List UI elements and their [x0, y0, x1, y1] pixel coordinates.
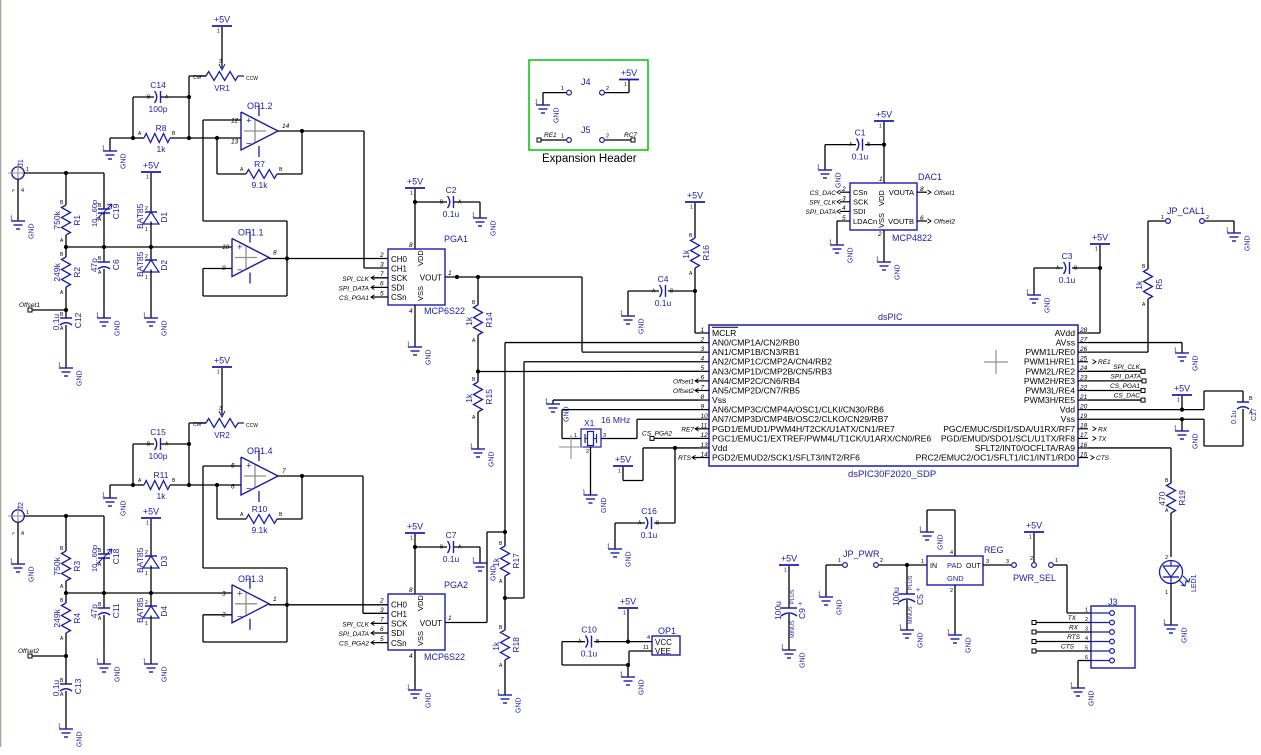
wire RA9 to R19 [1088, 448, 1171, 480]
svg-text:2: 2 [379, 252, 384, 259]
svg-text:GND: GND [489, 451, 496, 467]
wire OP1 VEE to ground [629, 651, 652, 665]
resistor R17 1k [491, 532, 521, 598]
svg-text:25: 25 [1079, 356, 1088, 363]
svg-text:GND: GND [947, 574, 964, 583]
svg-text:1: 1 [829, 240, 832, 246]
connector J3 [1085, 597, 1135, 668]
wire net row ch2 [66, 592, 232, 594]
svg-text:23: 23 [1079, 375, 1088, 382]
svg-text:VCC: VCC [655, 638, 672, 647]
net flag CS_PGA2 to PGA2 [339, 640, 388, 647]
svg-text:R10: R10 [252, 504, 268, 514]
svg-text:PWR_SEL: PWR_SEL [1013, 573, 1056, 583]
potentiometer VR1 [193, 59, 258, 93]
svg-text:3: 3 [986, 559, 989, 565]
capacitor C1 0.1u [825, 128, 884, 170]
svg-text:7: 7 [282, 468, 286, 475]
svg-text:DAC1: DAC1 [918, 172, 942, 182]
svg-text:100u: 100u [891, 587, 901, 606]
ground at R15 [470, 444, 496, 468]
wire JP_PWR-1 to ground [826, 565, 842, 597]
svg-text:1: 1 [407, 342, 410, 348]
svg-text:VSS: VSS [416, 286, 425, 301]
svg-text:X1: X1 [584, 418, 595, 428]
svg-text:CSn: CSn [391, 293, 407, 302]
junction Offset1 [64, 308, 68, 312]
ground at C16 [607, 544, 633, 568]
wire OP1.2 +in [203, 120, 241, 221]
wire REG pin4 to ground [927, 510, 955, 556]
svg-text:100p: 100p [149, 451, 168, 461]
svg-text:1: 1 [1165, 590, 1168, 596]
svg-text:PGA2: PGA2 [444, 580, 468, 590]
wire net row ch1 [66, 246, 232, 248]
svg-text:1k: 1k [157, 144, 167, 154]
svg-text:1: 1 [921, 559, 924, 565]
svg-text:AN7/CMP3D/CMP4B/OSC2/CLKO/CN29: AN7/CMP3D/CMP4B/OSC2/CLKO/CN29/RB7 [712, 414, 888, 424]
svg-text:1: 1 [1163, 620, 1166, 626]
svg-text:1: 1 [1085, 608, 1088, 614]
svg-text:−: − [246, 139, 252, 150]
svg-text:BAT85: BAT85 [135, 203, 145, 229]
svg-text:RE7: RE7 [681, 426, 694, 433]
svg-text:10: 10 [222, 244, 230, 251]
svg-text:1: 1 [1029, 535, 1032, 541]
wire +5V to PGA1 VDD [414, 189, 416, 249]
+5V at D1 [141, 161, 161, 181]
junction row2 b [102, 591, 106, 595]
svg-text:16: 16 [1080, 442, 1088, 449]
svg-text:14: 14 [282, 123, 290, 130]
svg-text:SPI_DATA: SPI_DATA [1111, 373, 1141, 380]
svg-text:1: 1 [102, 493, 105, 499]
wire OP1.2 output [278, 131, 364, 268]
junction R1 top [64, 171, 68, 175]
capacitor C3 0.1u [1034, 251, 1100, 295]
op-amp power OP1 [643, 626, 680, 656]
wire AN3 from ch1 divider [478, 370, 699, 372]
svg-text:1: 1 [497, 690, 500, 696]
svg-text:PRC2/EMUC2/OC1/SFLT1/IC1/INT1/: PRC2/EMUC2/OC1/SFLT1/IC1/INT1/RD0 [916, 453, 1076, 463]
ground at Vss pin8 [545, 399, 571, 423]
svg-text:1: 1 [583, 490, 586, 496]
svg-text:R18: R18 [511, 637, 521, 653]
svg-text:1: 1 [143, 659, 146, 665]
svg-text:1: 1 [273, 596, 277, 603]
svg-text:15: 15 [1080, 451, 1088, 458]
svg-text:Offset1: Offset1 [673, 378, 694, 385]
PGA1 CH1 pin wire [364, 267, 388, 269]
junction Vss pin19 [1180, 417, 1184, 421]
svg-text:5: 5 [380, 636, 384, 643]
svg-text:C19: C19 [111, 203, 121, 219]
svg-text:OUT: OUT [966, 563, 982, 570]
svg-text:VOUTB: VOUTB [888, 217, 914, 226]
svg-text:470: 470 [1157, 491, 1167, 505]
ground at J1 [10, 216, 36, 240]
svg-text:GND: GND [564, 406, 571, 422]
svg-text:R14: R14 [484, 312, 494, 328]
capacitor C7 0.1u [415, 530, 480, 564]
wire J2 to network [24, 515, 104, 517]
svg-text:2: 2 [606, 86, 609, 92]
net flag SPI_CLK to PGA1 [342, 276, 388, 283]
connector J1 [8, 159, 29, 194]
svg-text:IN: IN [930, 563, 937, 570]
svg-text:MCP6S22: MCP6S22 [424, 652, 465, 662]
op-amp OP1.4 [231, 446, 286, 502]
svg-text:GND: GND [800, 652, 807, 668]
resistor R15 1k [464, 372, 494, 450]
svg-text:1: 1 [217, 370, 220, 376]
svg-text:SPI_CLK: SPI_CLK [1113, 364, 1140, 371]
svg-text:BAT85: BAT85 [135, 547, 145, 573]
wire J3-6 to ground [1078, 661, 1091, 689]
svg-text:+5V: +5V [621, 68, 637, 78]
variable capacitor C19 [90, 173, 121, 247]
svg-text:27: 27 [1079, 336, 1088, 343]
svg-text:9.1k: 9.1k [251, 180, 268, 190]
svg-text:C18: C18 [111, 548, 121, 564]
net flag RTS to pin14 [678, 455, 699, 462]
wire R11 to ground [110, 485, 133, 498]
svg-text:13: 13 [231, 139, 239, 146]
junction OP1.4 out [300, 474, 304, 478]
capacitor C12 0.1u [51, 310, 83, 368]
wire OSC2 to crystal [601, 419, 699, 438]
svg-text:PLUS: PLUS [790, 589, 796, 604]
svg-text:C9: C9 [797, 608, 807, 619]
svg-text:3: 3 [1006, 559, 1009, 565]
svg-text:4: 4 [701, 356, 705, 363]
wire to OP1 ground [627, 665, 629, 677]
ground at PGA1 [407, 342, 433, 366]
ground at C11 [96, 659, 122, 683]
svg-text:0.1u: 0.1u [1231, 410, 1238, 424]
ground at J3 [1070, 683, 1096, 707]
svg-text:LDACn: LDACn [853, 217, 877, 226]
svg-text:C1: C1 [855, 128, 866, 138]
svg-text:11: 11 [643, 645, 649, 651]
ground at REG pin2 [947, 630, 973, 654]
svg-text:+5V: +5V [214, 356, 230, 366]
svg-text:VOUT: VOUT [420, 619, 442, 628]
svg-text:5: 5 [701, 365, 705, 372]
svg-text:J4: J4 [581, 77, 591, 87]
svg-text:AVdd: AVdd [1055, 328, 1076, 338]
svg-text:R3: R3 [72, 561, 82, 572]
junction R3 top [64, 514, 68, 518]
wire OP1.2 -in [189, 137, 241, 139]
wire J1 to network [24, 172, 104, 174]
svg-text:1: 1 [410, 191, 413, 197]
svg-text:2: 2 [1165, 555, 1168, 561]
svg-text:P: P [12, 188, 15, 193]
svg-text:R2: R2 [72, 267, 82, 278]
svg-text:R19: R19 [1177, 490, 1187, 506]
junction C7 [413, 545, 417, 549]
net RX to J3-3 [1032, 625, 1091, 635]
net CTS to J3-5 [1032, 644, 1091, 654]
svg-text:GND: GND [848, 247, 855, 263]
svg-text:VDD: VDD [877, 190, 886, 206]
ground at OP1 [620, 672, 646, 696]
svg-text:−: − [237, 611, 243, 622]
svg-text:1: 1 [58, 724, 61, 730]
svg-text:1: 1 [561, 134, 564, 140]
connector J2 [8, 502, 29, 537]
svg-text:GND: GND [162, 320, 169, 336]
svg-text:R11: R11 [154, 470, 169, 480]
junction row2 a [64, 591, 68, 595]
svg-text:28: 28 [1079, 327, 1088, 334]
svg-text:1k: 1k [464, 393, 474, 403]
+5V at R16 [685, 191, 705, 211]
svg-text:VDD: VDD [416, 250, 425, 266]
svg-text:47p: 47p [89, 258, 99, 272]
svg-text:4: 4 [409, 653, 413, 660]
svg-text:1: 1 [217, 29, 220, 35]
svg-text:AN6/CMP3C/CMP4A/OSC1/CLKI/CN30: AN6/CMP3C/CMP4A/OSC1/CLKI/CN30/RB6 [712, 405, 884, 415]
ground at LDACn [829, 240, 855, 264]
svg-text:PGD1/EMUD1/PWM4H/T2CK/U1ATX/CN: PGD1/EMUD1/PWM4H/T2CK/U1ATX/CN1/RE7 [712, 424, 895, 434]
svg-text:1: 1 [146, 521, 149, 527]
expansion header group box [529, 60, 648, 150]
svg-text:PAD: PAD [947, 561, 962, 570]
svg-text:Offset2: Offset2 [934, 219, 955, 226]
svg-text:+5V: +5V [1092, 233, 1108, 243]
wire OP1.1 feedback [203, 221, 287, 296]
wire REG OUT to PWR_SEL [983, 559, 1011, 565]
ground at J2 [10, 559, 36, 583]
net CS_PGA1 at pin22 [1088, 383, 1145, 393]
svg-text:1: 1 [145, 227, 148, 233]
ground at R8 [102, 146, 128, 170]
svg-text:+: + [246, 461, 252, 472]
svg-text:J1: J1 [16, 159, 25, 167]
svg-text:1: 1 [145, 571, 148, 577]
svg-text:1: 1 [879, 124, 882, 130]
svg-text:D4: D4 [159, 606, 169, 617]
svg-text:D2: D2 [159, 260, 169, 271]
junction PGA2 VOUT [503, 530, 507, 534]
+5V at AVdd [1090, 233, 1110, 253]
capacitor C17 0.1u loop [1204, 391, 1258, 446]
svg-text:−: − [237, 265, 243, 276]
capacitor C11 47p [89, 593, 121, 664]
svg-text:20: 20 [1079, 403, 1088, 410]
net flag Offset2 out [928, 219, 956, 226]
ground at DAC VSS [876, 257, 902, 281]
svg-text:PGA1: PGA1 [444, 234, 468, 244]
svg-text:+5V: +5V [214, 15, 230, 25]
wire +5V to PWR_SEL [1033, 533, 1035, 562]
LED LED1 [1160, 555, 1199, 596]
svg-text:21: 21 [1079, 394, 1088, 401]
svg-text:1: 1 [102, 146, 105, 152]
svg-text:+5V: +5V [620, 597, 636, 607]
svg-text:1: 1 [26, 510, 29, 516]
svg-text:JP_PWR: JP_PWR [843, 549, 880, 559]
svg-text:1: 1 [472, 558, 475, 564]
svg-text:7: 7 [701, 384, 705, 391]
wire +5V to OP1 VCC [627, 609, 629, 642]
ground at C2 [472, 213, 498, 237]
wire R5 to PWM1L [1088, 351, 1148, 353]
net flag SPI_CLK to PGA2 [342, 621, 388, 628]
svg-text:249k: 249k [52, 262, 62, 281]
svg-text:7: 7 [380, 617, 384, 624]
junction row1 a [64, 245, 68, 249]
svg-text:SPI_CLK: SPI_CLK [809, 199, 836, 206]
svg-text:10...60p: 10...60p [90, 545, 99, 572]
svg-text:SFLT2/INT0/OCFLTA/RA9: SFLT2/INT0/OCFLTA/RA9 [975, 443, 1075, 453]
svg-text:Vss: Vss [1061, 414, 1075, 424]
svg-text:GND: GND [554, 107, 561, 123]
svg-text:C2: C2 [446, 185, 457, 195]
jumper PWR_SEL [1012, 556, 1058, 583]
svg-text:GND: GND [918, 632, 925, 648]
svg-text:13: 13 [701, 442, 709, 449]
svg-text:MCLR: MCLR [712, 328, 736, 338]
wire +5V to Vdd pin13 [623, 448, 643, 481]
svg-text:1: 1 [879, 176, 883, 183]
svg-text:SPI_DATA: SPI_DATA [339, 285, 369, 292]
svg-text:AN0/CMP1A/CN2/RB0: AN0/CMP1A/CN2/RB0 [712, 338, 800, 348]
svg-text:1: 1 [620, 311, 623, 317]
svg-text:GND: GND [601, 497, 608, 513]
junction R17/R18 [503, 596, 507, 600]
svg-text:PWM3L/RE4: PWM3L/RE4 [1025, 385, 1075, 395]
svg-text:7: 7 [380, 271, 384, 278]
net flag RE1 at pin25 [1093, 359, 1112, 366]
svg-text:1: 1 [410, 536, 413, 542]
svg-text:PGC1/EMUC1/EXTREF/PWM4L/T1CK/U: PGC1/EMUC1/EXTREF/PWM4L/T1CK/U1ARX/CN0/R… [712, 433, 931, 443]
svg-text:11: 11 [701, 423, 708, 430]
wire JP_CAL1-2 to ground [1205, 221, 1234, 233]
svg-text:C14: C14 [150, 80, 166, 90]
svg-text:GND: GND [426, 349, 433, 365]
PGA2 VSS to ground [414, 650, 416, 690]
junction R8-opamp node [187, 136, 191, 140]
diode D1 BAT85 [135, 173, 169, 247]
variable capacitor C18 [90, 516, 121, 593]
svg-text:GND: GND [1089, 690, 1096, 706]
wire PWR_SEL to J3 pin1 [1054, 565, 1091, 613]
ground at C3 [1026, 290, 1052, 314]
svg-text:CS_PGA1: CS_PGA1 [339, 295, 369, 302]
svg-text:100p: 100p [149, 104, 168, 114]
svg-text:Vdd: Vdd [712, 443, 728, 453]
svg-text:12: 12 [701, 432, 709, 439]
net flag Offset1 to AN4 [673, 378, 699, 385]
svg-text:SPI_CLK: SPI_CLK [342, 621, 369, 628]
wire C14 to R8 left [132, 97, 134, 138]
svg-text:2: 2 [880, 558, 883, 564]
svg-text:8: 8 [273, 250, 277, 257]
svg-text:1: 1 [1161, 215, 1164, 221]
svg-text:+5V: +5V [687, 191, 703, 201]
resistor R11 1k [133, 470, 189, 501]
svg-text:GND: GND [121, 153, 128, 169]
svg-text:RX: RX [1069, 625, 1079, 632]
capacitor C10 0.1u [562, 625, 628, 665]
svg-text:2: 2 [877, 231, 882, 238]
svg-text:750k: 750k [52, 210, 62, 229]
junction C3 [1098, 266, 1102, 270]
svg-text:24: 24 [1079, 365, 1088, 372]
svg-text:1: 1 [574, 433, 577, 439]
svg-text:+5V: +5V [781, 554, 797, 564]
svg-text:SCK: SCK [391, 620, 408, 629]
wire MCLR [695, 291, 699, 333]
capacitor C4 0.1u [628, 274, 695, 316]
label Expansion Header [542, 153, 637, 165]
resistor R18 1k [491, 598, 521, 695]
net flag Offset1 [19, 302, 66, 312]
+5V supply for VR1 [212, 15, 232, 35]
resistor R8 1k [133, 123, 189, 154]
net SPI_DATA at pin23 [1088, 373, 1146, 383]
ground at REG pin4 [919, 527, 945, 551]
svg-text:BAT85: BAT85 [135, 597, 145, 623]
svg-text:0.1u: 0.1u [655, 298, 672, 308]
wire VR2-CW to R11 node [189, 423, 206, 485]
junction OP1.2 out [300, 129, 304, 133]
svg-text:MINUS: MINUS [790, 620, 796, 638]
svg-text:1: 1 [623, 611, 626, 617]
op-amp OP1.1 [222, 228, 277, 284]
svg-text:GND: GND [1045, 297, 1052, 313]
svg-text:C4: C4 [658, 274, 669, 284]
junction Vdd pin20 [1180, 408, 1184, 412]
svg-text:GND: GND [1245, 235, 1252, 251]
svg-text:1: 1 [1055, 558, 1058, 564]
svg-text:Offset2: Offset2 [18, 648, 39, 655]
wire Vdd pin20 [1088, 396, 1204, 410]
diode D3 BAT85 [135, 519, 169, 593]
svg-text:100u: 100u [773, 601, 783, 620]
svg-text:10: 10 [701, 413, 709, 420]
wire AN2 from ch2 divider [524, 362, 699, 598]
svg-text:VDD: VDD [416, 595, 425, 611]
svg-text:+: + [246, 116, 252, 127]
svg-text:AN3/CMP1D/CMP2B/CN5/RB3: AN3/CMP1D/CMP2B/CN5/RB3 [712, 366, 832, 376]
+5V at OP1 [618, 597, 638, 617]
+5V at DAC1 [874, 110, 894, 130]
svg-text:RE1: RE1 [544, 132, 557, 139]
svg-text:2: 2 [586, 449, 589, 455]
junction OP1.3 out [285, 603, 289, 607]
svg-text:SDI: SDI [853, 207, 866, 216]
svg-text:1k: 1k [491, 557, 501, 567]
svg-text:C7: C7 [446, 530, 457, 540]
svg-text:GND: GND [837, 599, 844, 615]
svg-text:GND: GND [77, 731, 84, 747]
svg-text:1: 1 [607, 544, 610, 550]
svg-text:1: 1 [10, 559, 13, 565]
svg-text:C16: C16 [641, 506, 657, 516]
svg-text:+5V: +5V [143, 507, 159, 517]
wire LDACn to ground [837, 221, 840, 245]
svg-text:0.1u: 0.1u [641, 530, 658, 540]
svg-text:SPI_DATA: SPI_DATA [806, 209, 836, 216]
svg-text:2: 2 [700, 336, 705, 343]
svg-text:RE1: RE1 [1098, 359, 1111, 366]
junction R7 tap [215, 136, 219, 140]
svg-text:MINUS: MINUS [908, 606, 914, 624]
